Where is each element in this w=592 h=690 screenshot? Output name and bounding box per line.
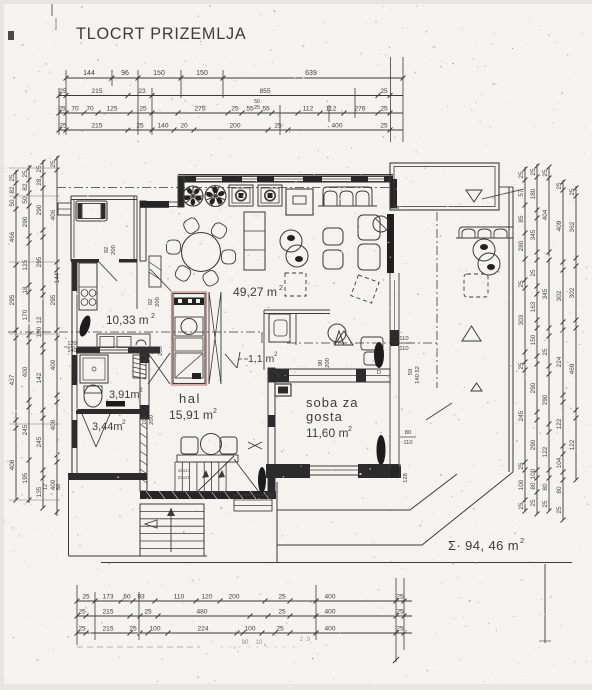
top dim row 4: [59, 129, 403, 131]
svg-text:125: 125: [106, 106, 117, 113]
svg-text:290: 290: [542, 394, 549, 405]
svg-text:290: 290: [530, 382, 537, 393]
round table bottom left of living: [328, 324, 346, 342]
kitchen burners: [81, 290, 88, 297]
shaft cross right of pantry: [209, 292, 221, 384]
svg-text:215: 215: [102, 626, 113, 633]
coffee table double circle: [280, 230, 302, 252]
wall jog chimney right of bay: [140, 201, 146, 261]
svg-text:112: 112: [303, 106, 314, 113]
svg-text:96: 96: [121, 70, 129, 77]
svg-text:409: 409: [556, 220, 563, 231]
svg-text:295: 295: [9, 294, 16, 305]
svg-text:110: 110: [403, 440, 412, 446]
svg-text:200: 200: [229, 123, 240, 130]
svg-text:60: 60: [56, 484, 62, 490]
wall wc top: [264, 309, 330, 311]
svg-text:290: 290: [530, 439, 537, 450]
porch slab bottom: [69, 555, 208, 557]
svg-text:25: 25: [278, 609, 286, 616]
svg-text:102: 102: [142, 415, 148, 425]
svg-text:215: 215: [91, 88, 102, 95]
terrace inner outline: [277, 474, 457, 510]
svg-text:25: 25: [530, 168, 537, 176]
svg-text:15,91 m: 15,91 m: [169, 408, 213, 422]
bottom dim row 1: [77, 600, 412, 602]
plant circle 1: [183, 186, 203, 206]
bottom dim row 3: [77, 632, 412, 634]
right dim column 1: [524, 167, 526, 511]
svg-text:90: 90: [242, 639, 249, 646]
triangle up center: [335, 331, 345, 345]
bottom tick under extension: [393, 657, 399, 663]
svg-text:200: 200: [325, 358, 331, 368]
svg-text:215: 215: [102, 609, 113, 616]
svg-text:295: 295: [50, 294, 57, 305]
interior stairs steps: [174, 462, 176, 492]
svg-text:12: 12: [36, 316, 43, 324]
svg-text:25: 25: [380, 123, 388, 130]
svg-text:400: 400: [50, 359, 57, 370]
svg-text:224: 224: [197, 626, 208, 633]
bottom faint leftover row: [77, 646, 200, 648]
svg-text:25: 25: [556, 182, 563, 190]
svg-text:50: 50: [9, 199, 16, 207]
svg-text:25: 25: [276, 626, 284, 633]
wall vertical jog to top wall: [178, 176, 184, 207]
wall bath bottom: [76, 409, 149, 414]
bottom dim vertical connectors: [76, 585, 78, 645]
wall bay left: [70, 196, 72, 261]
svg-text:200: 200: [155, 297, 161, 307]
svg-text:110: 110: [399, 346, 408, 352]
svg-text:200: 200: [158, 346, 164, 356]
svg-text:170: 170: [22, 309, 29, 320]
bottom right extension line: [544, 564, 546, 643]
svg-text:142: 142: [36, 372, 43, 383]
wall right exterior lower: [389, 346, 391, 478]
wall kitchen left exterior: [72, 261, 77, 291]
pergola inner rect: [394, 167, 495, 207]
svg-text:303: 303: [518, 314, 525, 325]
svg-text:90: 90: [318, 360, 324, 366]
svg-text:3,91m: 3,91m: [109, 389, 140, 401]
svg-text:345: 345: [542, 288, 549, 299]
svg-text:200: 200: [111, 245, 117, 255]
wall hal-guest vertical divider: [268, 368, 275, 497]
svg-text:12: 12: [43, 484, 49, 490]
dark cap over jog wall: [140, 201, 169, 208]
stove control dark band: [174, 298, 204, 306]
svg-text:195: 195: [22, 472, 29, 483]
svg-text:25: 25: [36, 165, 43, 173]
svg-text:25: 25: [274, 123, 282, 130]
svg-text:80: 80: [405, 430, 411, 436]
svg-text:2: 2: [520, 536, 524, 545]
svg-text:80: 80: [542, 483, 549, 491]
svg-text:25: 25: [542, 500, 549, 508]
svg-text:25: 25: [518, 502, 525, 510]
door swing V room 344: [82, 414, 96, 447]
bath dark rug: [106, 401, 125, 407]
wall left exterior lower: [71, 351, 73, 477]
wall right exterior upper dark: [390, 179, 397, 208]
closet niche hatched above pantry: [149, 256, 161, 287]
terrace table double circle: [473, 239, 495, 261]
svg-text:345: 345: [530, 229, 537, 240]
svg-text:400: 400: [22, 366, 29, 377]
svg-text:25: 25: [518, 462, 525, 470]
svg-text:163: 163: [530, 301, 537, 312]
wc door swing triangle: [225, 354, 237, 368]
right dim column 5: [575, 186, 577, 480]
wall top outer line: [178, 174, 393, 176]
dash-dot line living horizontal: [287, 342, 437, 344]
svg-text:70: 70: [71, 106, 79, 113]
svg-text:25: 25: [396, 609, 404, 616]
wall bay bottom right segment: [119, 259, 137, 263]
svg-text:55: 55: [262, 106, 270, 113]
left dim column 2: [28, 165, 30, 503]
svg-text:128: 128: [403, 473, 409, 483]
entry steps outside: [234, 495, 272, 511]
wall right exterior mid: [390, 330, 399, 346]
svg-text:gosta: gosta: [306, 409, 343, 424]
wall room344 bottom / porch top: [68, 473, 147, 480]
svg-text:hal: hal: [179, 391, 201, 406]
wall kitchen-bath divider: [76, 347, 100, 353]
svg-text:25: 25: [50, 160, 57, 168]
armchair 2: [323, 250, 343, 269]
guest door dark leaf: [374, 342, 384, 368]
svg-text:120: 120: [201, 594, 212, 601]
tv cabinet: [286, 189, 313, 215]
svg-text:82: 82: [22, 183, 29, 191]
window dark blob guest room right: [377, 435, 386, 465]
dash-dot section line left: [8, 331, 262, 333]
kitchen hob block 1: [229, 185, 253, 206]
pergola bottom double edge: [390, 209, 499, 211]
dash-dot leader corner to wc: [261, 332, 263, 343]
svg-text:1,1 m: 1,1 m: [248, 353, 275, 365]
svg-text:93: 93: [137, 594, 145, 601]
wc toilet: [269, 314, 290, 342]
svg-text:400: 400: [324, 594, 335, 601]
pantry lower box with diagonal: [175, 353, 203, 378]
svg-text:112: 112: [326, 106, 337, 113]
pantry middle panel: [175, 338, 203, 351]
svg-text:100: 100: [244, 626, 255, 633]
hal bench seat right: [220, 437, 237, 454]
svg-text:60: 60: [123, 594, 131, 601]
left dim column 3: [42, 160, 44, 508]
bed bench near guest door: [361, 337, 383, 350]
svg-text:TLOCRT PRIZEMLJA: TLOCRT PRIZEMLJA: [76, 25, 247, 43]
right dim column 3: [548, 167, 550, 511]
svg-text:150: 150: [196, 70, 208, 77]
terrace outer outline diagonal: [277, 472, 513, 545]
svg-text:408: 408: [9, 459, 16, 470]
svg-text:82: 82: [9, 186, 16, 194]
svg-text:100: 100: [149, 626, 160, 633]
svg-text:110: 110: [174, 594, 185, 601]
svg-text:469: 469: [569, 363, 576, 374]
wall bay right: [133, 196, 135, 261]
pergola outer rect top right: [390, 163, 499, 210]
wall living-guest divider band: [269, 369, 390, 382]
svg-text:400: 400: [324, 609, 335, 616]
top dim vertical connectors: [58, 88, 60, 135]
top dim row 1: [66, 77, 403, 79]
exterior stairs arrow: [170, 508, 172, 552]
hal bench seat left: [181, 437, 198, 454]
bath shower: [80, 355, 108, 383]
pantry column red outline: [172, 292, 207, 385]
svg-text:85: 85: [518, 215, 525, 223]
svg-text:29x28: 29x28: [178, 475, 191, 480]
svg-text:122: 122: [569, 439, 576, 450]
svg-text:280: 280: [518, 240, 525, 251]
window strip right of cap: [169, 201, 178, 203]
svg-text:135: 135: [36, 486, 43, 497]
svg-text:soba za: soba za: [306, 395, 359, 410]
svg-text:362: 362: [569, 221, 576, 232]
wall right exterior bottom corner dark: [390, 466, 399, 478]
left dim small ticks row: [9, 167, 60, 169]
bottom dim row 2: [77, 615, 412, 617]
left dim column 4: [56, 156, 58, 516]
pantry sink square with circle: [175, 317, 203, 336]
wc door arc: [271, 371, 279, 379]
svg-text:25: 25: [82, 594, 90, 601]
sofa top arcs: [323, 187, 372, 206]
svg-text:50: 50: [22, 196, 29, 204]
svg-text:245: 245: [22, 424, 29, 435]
svg-text:140 52: 140 52: [415, 366, 421, 384]
svg-text:224: 224: [556, 356, 563, 367]
svg-text:25: 25: [136, 123, 144, 130]
svg-text:80: 80: [530, 482, 537, 490]
dining table round: [182, 233, 221, 272]
pantry column black outline: [173, 294, 205, 384]
armchair 1: [323, 228, 343, 245]
svg-text:140: 140: [157, 123, 168, 130]
svg-text:23: 23: [138, 88, 146, 95]
wall hal bottom: [140, 491, 276, 499]
svg-text:200: 200: [149, 415, 155, 425]
kitchen faucet: [136, 340, 146, 345]
svg-text:20: 20: [180, 123, 188, 130]
kitchen sink basins: [100, 337, 114, 348]
svg-text:28: 28: [36, 178, 43, 186]
svg-text:Σ· 94, 46 m: Σ· 94, 46 m: [448, 538, 519, 553]
wall top main dark band: [178, 176, 393, 183]
svg-text:19x17: 19x17: [178, 468, 191, 473]
svg-text:276: 276: [354, 106, 365, 113]
paper speckles: [192, 105, 194, 107]
svg-text:180: 180: [530, 188, 537, 199]
svg-text:59: 59: [408, 369, 414, 375]
svg-text:25: 25: [144, 609, 152, 616]
interior stairs diagonal arrow: [198, 456, 234, 491]
hal bench back band: [177, 455, 238, 462]
porch slab left vertical: [68, 477, 70, 556]
svg-text:173: 173: [102, 594, 113, 601]
svg-text:2: 2: [279, 285, 283, 292]
svg-text:290: 290: [36, 204, 43, 215]
svg-text:400: 400: [324, 626, 335, 633]
stray mark left margin: [8, 31, 14, 40]
svg-text:25: 25: [542, 348, 549, 356]
wall hal left below bath: [140, 419, 147, 491]
svg-text:25: 25: [569, 188, 576, 196]
svg-text:404: 404: [542, 209, 549, 220]
svg-text:215: 215: [91, 123, 102, 130]
svg-text:49,27 m: 49,27 m: [233, 285, 277, 299]
top dim row 2: [59, 95, 403, 97]
svg-text:25: 25: [78, 626, 86, 633]
bay window seat: [76, 201, 107, 221]
svg-text:302: 302: [556, 290, 563, 301]
svg-text:25: 25: [254, 105, 260, 111]
ground long bottom line: [101, 562, 572, 564]
leader bottom right: [426, 403, 452, 420]
entry door leaf dark: [258, 467, 266, 493]
svg-text:466: 466: [9, 231, 16, 242]
svg-text:25: 25: [231, 106, 239, 113]
wall bath-hall vertical: [140, 353, 149, 419]
kitchen counter left column: [79, 263, 97, 310]
svg-text:2: 2: [139, 387, 143, 394]
wall guest bottom: [266, 464, 310, 478]
svg-text:122: 122: [542, 446, 549, 457]
svg-text:25: 25: [129, 626, 137, 633]
dashed floor element: [285, 273, 306, 296]
edge smudges: [0, 0, 592, 4]
svg-text:55: 55: [246, 106, 254, 113]
svg-text:2·,9: 2·,9: [300, 636, 311, 643]
dining chairs: [222, 250, 236, 264]
svg-text:25: 25: [396, 594, 404, 601]
svg-text:18: 18: [22, 286, 29, 294]
terrace right edge double: [508, 187, 510, 472]
svg-text:2: 2: [348, 426, 352, 433]
kitchen hob block 2: [258, 185, 282, 206]
svg-text:400: 400: [331, 123, 342, 130]
svg-text:25: 25: [380, 88, 388, 95]
svg-text:302: 302: [569, 287, 576, 298]
hal bench seat middle circle: [201, 434, 222, 455]
plant circle 2: [205, 186, 226, 207]
svg-text:290: 290: [22, 216, 29, 227]
bath toilet: [84, 385, 102, 407]
exterior stairs block: [140, 504, 204, 556]
svg-text:25: 25: [396, 626, 404, 633]
svg-text:275: 275: [194, 106, 205, 113]
side sofa right: [358, 215, 380, 240]
svg-text:25: 25: [530, 269, 537, 277]
svg-text:70: 70: [86, 106, 94, 113]
svg-text:855: 855: [259, 88, 270, 95]
right dim column 4: [562, 180, 564, 520]
svg-text:25: 25: [139, 106, 147, 113]
svg-text:144: 144: [83, 70, 95, 77]
svg-text:125: 125: [22, 259, 29, 270]
triangle down top terrace: [466, 190, 482, 202]
dash-dot roof line top: [57, 187, 390, 189]
kitchen sink counter: [97, 334, 150, 350]
svg-text:80: 80: [556, 486, 563, 494]
svg-text:92: 92: [104, 247, 110, 253]
svg-text:25: 25: [380, 106, 388, 113]
svg-text:25: 25: [518, 171, 525, 179]
wall right exterior - chimney dark: [387, 214, 394, 273]
svg-text:25: 25: [542, 169, 549, 177]
svg-text:150: 150: [530, 334, 537, 345]
stairs left arrowhead mark: [145, 520, 157, 528]
stairs direction cross: [248, 442, 262, 449]
svg-text:25: 25: [518, 362, 525, 370]
entry door swing: [234, 459, 259, 492]
window slots in top wall: [196, 177, 222, 182]
scan corner mark top-left: [51, 4, 53, 16]
wall bay top (window band): [71, 195, 137, 197]
svg-text:245: 245: [518, 410, 525, 421]
round side table near right wall: [373, 216, 389, 232]
cupboard between dining and living: [244, 212, 265, 270]
terrace chair dashed: [464, 274, 488, 297]
kitchen dark door shade: [77, 314, 92, 338]
svg-text:92: 92: [151, 348, 157, 354]
svg-text:2: 2: [151, 313, 155, 320]
svg-text:25: 25: [9, 174, 16, 182]
svg-text:25: 25: [58, 106, 66, 113]
svg-text:144: 144: [55, 272, 61, 283]
svg-text:25: 25: [22, 170, 29, 178]
svg-text:408: 408: [50, 419, 57, 430]
door swing bay-kitchen: [99, 262, 117, 281]
svg-text:25: 25: [530, 499, 537, 507]
door cross to hal: [148, 353, 170, 384]
svg-text:245: 245: [36, 436, 43, 447]
svg-text:D: D: [377, 370, 381, 376]
dash-dot line terrace vertical: [436, 212, 438, 388]
svg-text:92: 92: [148, 299, 154, 305]
svg-text:110: 110: [399, 336, 408, 342]
triangle small right: [471, 383, 482, 391]
leader from triangle to right dims: [482, 189, 524, 199]
svg-text:25: 25: [278, 594, 286, 601]
radiator box under divider: [275, 384, 291, 396]
door leaf bath (hatched): [133, 355, 146, 378]
svg-text:2: 2: [213, 408, 217, 415]
svg-text:122: 122: [556, 418, 563, 429]
triangle up right terrace large: [462, 326, 481, 341]
wall wc left: [263, 310, 265, 370]
svg-text:480: 480: [196, 609, 207, 616]
terrace sofa top: [459, 227, 513, 238]
terrace left vertical edge: [276, 482, 278, 562]
svg-text:10: 10: [256, 639, 263, 646]
left dim column 1: [15, 170, 17, 500]
svg-text:100: 100: [530, 468, 537, 479]
box outside left wall: [58, 203, 71, 215]
svg-text:10,33 m: 10,33 m: [106, 313, 149, 327]
door swing kitchen to pantry: [150, 269, 171, 291]
svg-text:25: 25: [518, 280, 525, 288]
wall right exterior window upper: [390, 207, 399, 209]
top dim row 3: [59, 112, 403, 114]
